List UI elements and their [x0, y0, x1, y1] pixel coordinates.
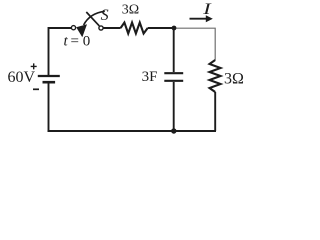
- svg-text:3Ω: 3Ω: [224, 71, 244, 88]
- svg-text:3F: 3F: [142, 69, 158, 85]
- svg-text:60V: 60V: [8, 69, 36, 86]
- svg-text:S: S: [101, 7, 109, 24]
- svg-text:3Ω: 3Ω: [122, 3, 139, 18]
- svg-text:I: I: [202, 1, 212, 18]
- svg-text:= 0: = 0: [71, 34, 91, 50]
